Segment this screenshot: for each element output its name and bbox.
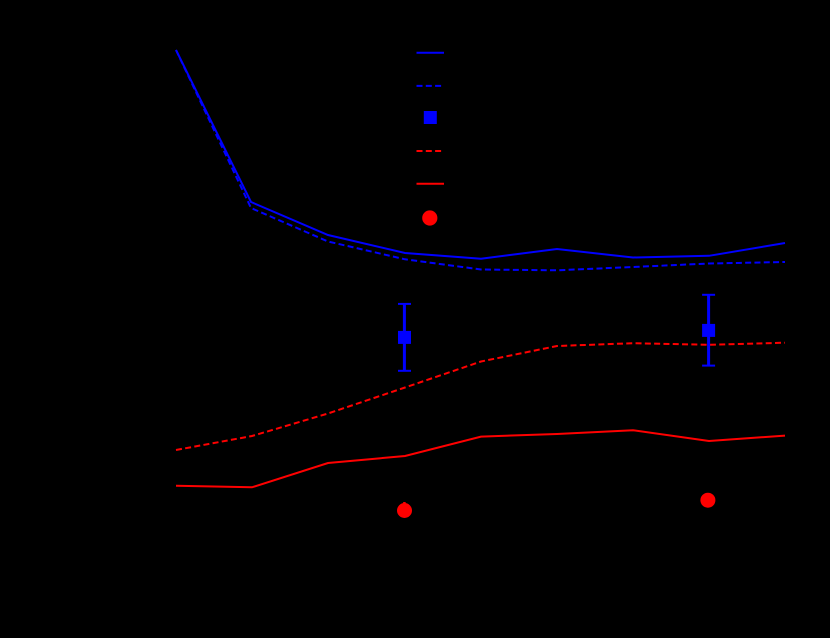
legend sample: red solid line: [417, 183, 445, 185]
legend sample: blue square marker: [424, 111, 437, 124]
blue square marker left: [398, 331, 411, 344]
blue dashed curve: [176, 50, 785, 270]
blue errorbar left: bottom cap: [398, 370, 411, 372]
blue errorbar right: bottom cap: [702, 365, 715, 367]
legend sample: blue solid line: [417, 52, 445, 54]
red circle marker right: [700, 493, 715, 508]
blue errorbar left: vertical line: [403, 304, 406, 371]
red circle marker left: [397, 503, 412, 518]
red solid curve: [176, 430, 785, 487]
legend sample: blue dashed line: [417, 85, 445, 87]
blue errorbar right: vertical line: [707, 295, 710, 366]
legend sample: red dashed line: [417, 150, 445, 152]
blue errorbar right: top cap: [702, 294, 715, 296]
legend sample: red circle marker: [422, 210, 437, 225]
blue square marker right: [702, 324, 715, 337]
blue errorbar left: top cap: [398, 303, 411, 305]
blue solid curve: [176, 50, 785, 259]
red dashed curve: [176, 343, 785, 450]
red errorbar tip above left circle: [403, 502, 406, 512]
